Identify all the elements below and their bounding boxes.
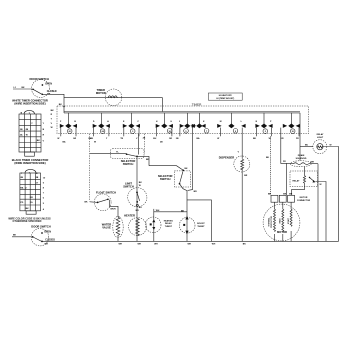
svg-text:2B: 2B [160, 142, 163, 144]
svg-text:Y: Y [51, 119, 53, 121]
svg-text:N: N [256, 121, 258, 123]
heating delay thermostat [145, 209, 187, 245]
svg-text:4: 4 [43, 208, 45, 211]
svg-text:PD: PD [20, 202, 23, 204]
svg-text:10: 10 [43, 177, 46, 179]
svg-text:V: V [238, 152, 240, 154]
svg-text:W: W [26, 135, 28, 137]
svg-text:H: H [156, 121, 158, 123]
svg-text:SWITCH: SWITCH [123, 185, 134, 189]
delay light L1 [300, 133, 339, 242]
float switch S3 [85, 191, 119, 217]
svg-text:HEATING: HEATING [164, 219, 174, 222]
selector switch SW2 [149, 128, 197, 193]
svg-text:(WIRE INSERTION SIDE): (WIRE INSERTION SIDE) [14, 161, 45, 165]
wire: SW1 to selector switch 2 [137, 156, 149, 165]
svg-text:8: 8 [43, 188, 45, 190]
svg-text:2B: 2B [36, 177, 39, 179]
svg-text:R: R [43, 135, 45, 137]
S1 contacts [32, 88, 34, 90]
timer cam switch 3 [120, 113, 140, 140]
svg-text:BK: BK [185, 168, 189, 170]
wire: SW1 to limit switch / heater [136, 156, 138, 241]
svg-text:HEATER: HEATER [124, 214, 135, 218]
svg-text:B: B [43, 129, 45, 131]
svg-text:W: W [320, 184, 322, 186]
svg-text:W: W [330, 145, 332, 147]
svg-text:(WIRE INSERTION SIDE): (WIRE INSERTION SIDE) [14, 102, 45, 106]
svg-text:BR: BR [244, 175, 248, 177]
timer cam switch 9 [280, 113, 300, 164]
svg-text:DELAY: DELAY [165, 222, 172, 225]
svg-text:G: G [170, 121, 172, 123]
svg-text:BA: BA [20, 186, 24, 189]
HI HEAT DRY option box [208, 93, 242, 100]
svg-text:WH: WH [188, 243, 192, 245]
svg-text:GR: GR [73, 138, 77, 140]
svg-text:BR: BR [136, 210, 140, 212]
svg-text:W: W [51, 127, 53, 129]
wire: cam 5 down to SW2 output node [188, 128, 193, 191]
svg-text:HI (TEMP BOOST): HI (TEMP BOOST) [216, 98, 234, 100]
svg-text:WH: WH [119, 243, 123, 245]
svg-text:2B: 2B [26, 129, 29, 131]
svg-text:VALVE: VALVE [102, 225, 111, 229]
svg-text:W: W [217, 138, 219, 140]
black timer connector J2 [12, 158, 49, 214]
svg-text:BK: BK [37, 140, 41, 142]
timer cam switch 1 [57, 113, 77, 140]
timer cam switch 4 [153, 113, 173, 140]
selector switch SW1 [111, 149, 150, 166]
svg-text:BOOST: BOOST [197, 223, 205, 225]
svg-text:BU: BU [153, 138, 157, 140]
motor M2 [263, 202, 300, 241]
svg-text:B: B [74, 121, 76, 123]
svg-text:DISPENSER: DISPENSER [219, 155, 235, 159]
drain solenoid coil [283, 154, 318, 241]
svg-text:BK: BK [51, 110, 55, 112]
relay K1 [290, 167, 326, 241]
svg-text:K: K [203, 121, 205, 123]
svg-text:WH: WH [45, 244, 49, 246]
svg-text:PK: PK [283, 161, 286, 163]
L1 bus wire (double line) [64, 111, 300, 113]
timer cam switch 6 [192, 113, 209, 140]
white timer connector J1 [12, 99, 54, 157]
svg-text:BK: BK [22, 87, 26, 89]
svg-text:BA: BA [63, 141, 67, 144]
svg-text:2B: 2B [143, 138, 146, 140]
wire: selector switch 1 up to cam 3 [138, 134, 140, 155]
svg-text:WH: WH [212, 243, 216, 245]
door switch S2 (lower) [12, 225, 55, 246]
svg-text:PROTECTOR: PROTECTOR [271, 215, 273, 227]
svg-text:V: V [43, 140, 45, 142]
heater R1 [124, 210, 146, 245]
limit switch S4 [123, 182, 147, 207]
svg-text:TN: TN [120, 138, 123, 140]
svg-text:THERMAL: THERMAL [267, 217, 270, 227]
svg-text:BA: BA [197, 137, 201, 140]
svg-text:M: M [220, 121, 222, 123]
svg-text:BK/R: BK/R [111, 209, 117, 211]
svg-text:2B: 2B [176, 138, 179, 140]
svg-text:WH: WH [138, 243, 142, 245]
svg-text:DRAIN: DRAIN [298, 154, 305, 157]
svg-text:9: 9 [43, 183, 45, 185]
svg-text:V: V [51, 123, 53, 125]
motor connector [266, 136, 311, 202]
svg-text:SWITCH: SWITCH [123, 162, 134, 166]
svg-text:MOTOR: MOTOR [300, 197, 308, 199]
water valve coil [102, 216, 123, 245]
svg-text:DR: DR [30, 197, 34, 199]
wire from S1 to bus [42, 94, 64, 113]
svg-text:THMST: THMST [197, 226, 205, 228]
svg-text:BK: BK [13, 235, 17, 237]
boost thermostat [179, 191, 215, 246]
svg-text:Y: Y [43, 123, 45, 125]
svg-text:WH: WH [154, 243, 158, 245]
dispenser coil [219, 128, 250, 246]
svg-text:BR: BR [194, 191, 198, 193]
svg-text:YL: YL [116, 152, 119, 154]
svg-text:BK: BK [266, 157, 270, 159]
svg-text:SWITCH: SWITCH [160, 177, 171, 181]
svg-text:BK: BK [253, 138, 257, 140]
svg-text:HI HEAT DRY: HI HEAT DRY [219, 94, 233, 97]
svg-text:E: E [123, 121, 125, 123]
svg-text:MOTOR: MOTOR [277, 230, 287, 234]
svg-text:Y: Y [106, 138, 108, 140]
svg-text:W: W [94, 142, 96, 144]
svg-text:BU: BU [305, 145, 309, 147]
svg-text:OR: OR [169, 138, 173, 140]
svg-text:PK: PK [296, 138, 299, 140]
svg-text:BK: BK [26, 208, 30, 210]
svg-text:W: W [57, 138, 59, 140]
svg-text:MOTOR: MOTOR [96, 91, 106, 95]
svg-text:D: D [93, 121, 95, 123]
svg-text:J: J [179, 121, 181, 123]
svg-text:DELAY: DELAY [317, 133, 324, 136]
svg-text:F: F [60, 121, 62, 123]
svg-text:2G: 2G [30, 202, 33, 204]
svg-text:WH: WH [311, 162, 315, 164]
svg-text:P: P [270, 121, 272, 123]
svg-text:BA: BA [89, 137, 93, 140]
svg-text:Y: Y [31, 123, 33, 125]
svg-text:7: 7 [43, 193, 45, 195]
wire: bus end down to drain solenoid [299, 113, 301, 161]
svg-text:OPEN: OPEN [44, 231, 51, 233]
timer cam switch 2 [90, 113, 110, 140]
svg-text:L: L [241, 121, 243, 123]
svg-text:6: 6 [43, 197, 45, 199]
svg-text:C: C [137, 121, 139, 123]
timer motor M1 [64, 88, 163, 112]
svg-text:A: A [107, 120, 109, 123]
svg-text:V: V [136, 138, 138, 140]
svg-text:FLOAT SWITCH: FLOAT SWITCH [96, 191, 116, 195]
svg-text:CONNECTOR: CONNECTOR [297, 200, 311, 202]
svg-text:2B: 2B [20, 177, 23, 179]
svg-text:2B: 2B [20, 129, 23, 131]
timer cam switch 7 [217, 113, 245, 140]
svg-text:BK: BK [85, 201, 89, 203]
svg-text:BU: BU [139, 207, 143, 209]
svg-text:L1: L1 [14, 87, 17, 89]
svg-text:OTHERWISE SPECIFIED: OTHERWISE SPECIFIED [13, 220, 42, 223]
svg-text:THMST: THMST [165, 226, 173, 228]
svg-text:R: R [51, 114, 53, 116]
svg-text:SOLENOID: SOLENOID [296, 158, 307, 160]
svg-text:OR: OR [280, 138, 284, 140]
svg-text:START: START [287, 217, 290, 224]
svg-text:OPEN: OPEN [45, 83, 52, 85]
svg-text:MAIN: MAIN [279, 218, 282, 223]
svg-text:BK: BK [59, 104, 63, 106]
svg-text:W: W [139, 185, 141, 187]
wire: float line to selector switch 1 [90, 153, 127, 155]
svg-text:DOOR SWITCH: DOOR SWITCH [31, 225, 50, 229]
svg-text:DOOR SWITCH: DOOR SWITCH [29, 77, 48, 81]
svg-text:BK: BK [139, 182, 143, 184]
svg-text:BK: BK [243, 243, 247, 245]
timer cam switch 8 [253, 113, 273, 140]
svg-text:RELAY: RELAY [293, 179, 300, 182]
wire L1 in [13, 88, 32, 90]
svg-text:5: 5 [43, 203, 45, 205]
neutral bus wire [42, 240, 339, 242]
svg-text:2A: 2A [20, 134, 23, 137]
door switch S1 (upper) [13, 77, 65, 113]
timer cam switch 5 [176, 113, 195, 140]
svg-text:LIGHT: LIGHT [317, 137, 324, 139]
svg-text:BK: BK [181, 211, 185, 213]
